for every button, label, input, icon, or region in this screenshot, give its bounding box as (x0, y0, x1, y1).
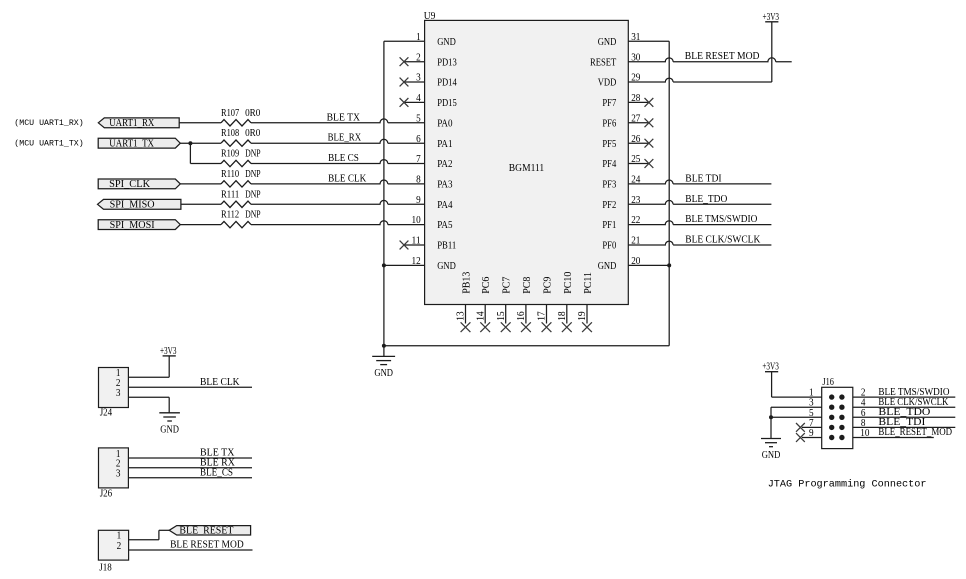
wire: U9 pin 1 GND to left rail (384, 40, 425, 42)
svg-text:PC7: PC7 (502, 277, 513, 294)
wire: U9 pin 3 stub (404, 81, 424, 83)
J16 pin number 3 (809, 398, 814, 409)
U9 right pin 27 name PF6 (602, 118, 616, 129)
net label BLE RESET MOD (J18) (170, 540, 244, 551)
junction at pin 12 / left rail (382, 263, 386, 267)
resistor R110 (221, 169, 261, 187)
connector J26 body (99, 448, 129, 499)
svg-text:PD15: PD15 (437, 98, 457, 109)
port flag SPI_CLK (98, 179, 180, 190)
wire: U9 pin 29 VDD to +3V3 (628, 22, 772, 82)
J26 pin number 3 (116, 469, 121, 480)
U9 pin number 12 (412, 256, 421, 267)
J16 pin number 10 (860, 428, 869, 439)
svg-text:PA5: PA5 (437, 220, 452, 231)
power symbol +3V3 (J24) (160, 346, 177, 357)
port flag SPI_MOSI (98, 220, 180, 231)
wire: SPI_MISO to R111 (181, 203, 221, 205)
svg-text:SPI_MOSI: SPI_MOSI (110, 220, 155, 231)
resistor R108 (221, 128, 260, 146)
svg-text:PF1: PF1 (602, 220, 616, 231)
U9 pin number 21 (631, 236, 640, 247)
U9 pin number 29 (631, 73, 640, 84)
net label BLE_TDO (J16) (878, 407, 930, 418)
wire: U9 pin 15 stub (505, 305, 507, 324)
port flag SPI_MISO (98, 199, 181, 210)
net label BLE TMS/SWDIO (685, 214, 757, 225)
svg-text:R107: R107 (221, 108, 239, 119)
U9 bottom pin 17 name PC9 (rotated) (543, 277, 554, 294)
svg-text:BLE CLK: BLE CLK (328, 173, 367, 184)
wire: J16 pin 4 net BLE CLK/SWCLK (853, 406, 956, 408)
wire: J16 pin 9 stub (802, 437, 822, 439)
wire: J18 pin 1 to BLE_RESET flag (129, 530, 170, 540)
wire: U9 pin 20 GND stub (628, 264, 669, 266)
svg-text:PA3: PA3 (437, 180, 452, 191)
svg-text:3: 3 (116, 388, 121, 399)
net label BLE CLK (J24) (200, 377, 240, 388)
J18 pin number 1 (117, 531, 122, 542)
svg-text:2: 2 (117, 541, 122, 552)
wire: J16 pin 8 net BLE_TDI (853, 426, 956, 428)
wire: U9 pin 28 stub (628, 101, 648, 103)
U9 pin number 9 (416, 195, 421, 206)
wire: U9 pin 13 stub (465, 305, 467, 324)
no-connect X on pin 11 (400, 241, 409, 250)
ground symbol (J16) (761, 439, 781, 462)
no-connect X on pin 26 (645, 139, 654, 148)
no-connect X on pin 3 (400, 78, 409, 87)
no-connect X on pin 27 (645, 118, 654, 127)
J16 pin number 1 (809, 388, 814, 399)
svg-text:PB13: PB13 (462, 272, 473, 294)
wire: J18 pin 2 net BLE RESET MOD (129, 549, 253, 551)
wire: J26 pin 2 net BLE RX (128, 467, 252, 469)
J26 pin number 2 (116, 459, 121, 470)
J26 pin number 1 (116, 449, 121, 460)
svg-text:PA4: PA4 (437, 200, 452, 211)
svg-text:PC11: PC11 (583, 272, 594, 294)
connector J24 body (99, 368, 129, 419)
svg-text:BLE_TDO: BLE_TDO (685, 194, 727, 205)
U9 right pin 29 name VDD (598, 78, 617, 89)
U9 left pin 2 name PD13 (437, 57, 457, 68)
wire: U9 pin 23 net BLE_TDO (628, 200, 771, 204)
J24 pin number 1 (116, 368, 121, 379)
wire: U9 pin 22 net BLE TMS/SWDIO (628, 221, 771, 225)
svg-text:GND: GND (374, 368, 393, 379)
wire: R112 to U9 pin 10 (251, 221, 425, 225)
U9 pin number 28 (631, 93, 640, 104)
svg-text:J26: J26 (100, 488, 113, 499)
svg-text:PC10: PC10 (563, 272, 574, 294)
junction on UART1_TX net (188, 141, 192, 145)
U9 bottom pin 18 name PC10 (rotated) (563, 272, 574, 294)
wire: R107 to U9 pin 5, net BLE TX (251, 119, 425, 123)
wire: U9 pin 30 RESET net BLE RESET MOD (628, 58, 791, 62)
U9 left pin 12 name GND (437, 261, 456, 272)
port flag UART1_TX (98, 138, 180, 149)
wire: R111 to U9 pin 9 (251, 200, 425, 204)
U9 left pin 3 name PD14 (437, 78, 457, 89)
no-connect X on pin 13 (461, 322, 471, 332)
U9 left pin 7 name PA2 (437, 159, 452, 170)
U9 bottom pin number 19 (rotated) (577, 311, 588, 321)
svg-text:(MCU UART1_RX): (MCU UART1_RX) (14, 118, 83, 128)
svg-text:PB11: PB11 (437, 241, 456, 252)
svg-text:J18: J18 (99, 563, 112, 574)
svg-text:PA2: PA2 (437, 159, 452, 170)
svg-text:BLE CLK: BLE CLK (200, 377, 240, 388)
U9 pin number 24 (631, 175, 641, 186)
wire: U9 pin 12 GND stub (384, 264, 425, 266)
U9 pin number 26 (631, 134, 640, 145)
J16 pin number 8 (861, 418, 866, 429)
J16 pin circles (829, 394, 845, 440)
wire: U9 pin 25 stub (628, 163, 648, 165)
svg-text:PF4: PF4 (602, 159, 616, 170)
U9 right pin 21 name PF0 (602, 241, 616, 252)
ground symbol below U9 (372, 346, 395, 379)
wire: right GND rail vertical (668, 41, 670, 346)
U9 bottom pin number 17 (rotated) (537, 311, 548, 321)
net label BLE CLK/SWCLK (J16) (878, 397, 949, 408)
svg-text:PC6: PC6 (481, 277, 492, 294)
wire: bottom GND bus (384, 345, 669, 347)
net label BLE TX (327, 112, 361, 123)
wire: U9 pin 21 net BLE CLK/SWCLK (628, 241, 771, 245)
svg-text:DNP: DNP (245, 210, 261, 221)
J16 pin number 5 (809, 408, 814, 419)
svg-text:0R0: 0R0 (245, 108, 260, 119)
no-connect X on pin 28 (645, 98, 654, 107)
svg-text:PF2: PF2 (602, 200, 616, 211)
svg-text:VDD: VDD (598, 78, 617, 89)
no-connect X on pin 15 (501, 322, 511, 332)
power symbol +3V3 (top right) (763, 12, 780, 23)
U9 pin number 27 (631, 113, 640, 124)
wire: U9 pin 18 stub (566, 305, 568, 324)
net label BLE CS (328, 153, 359, 164)
refdes U9 (424, 11, 436, 22)
wire: J26 pin 1 net BLE TX (128, 457, 252, 459)
value BGM111 (509, 163, 544, 174)
U9 bottom pin number 16 (rotated) (516, 311, 527, 321)
U9 left pin 11 name PB11 (437, 241, 456, 252)
U9 pin number 23 (631, 195, 640, 206)
U9 right pin 22 name PF1 (602, 220, 616, 231)
U9 pin number 3 (416, 73, 421, 84)
J16 pin number 7 (809, 418, 814, 429)
port flag UART1_RX (98, 118, 179, 129)
net label BLE RX (J26) (200, 457, 236, 468)
U9 pin number 11 (412, 236, 421, 247)
svg-text:0R0: 0R0 (245, 128, 260, 139)
wire: J16 pin 2 net BLE TMS/SWDIO (853, 396, 956, 398)
U9 pin number 1 (416, 32, 421, 43)
U9 pin number 6 (416, 134, 421, 145)
net label BLE_RX (328, 133, 362, 144)
net label BLE TMS/SWDIO (J16) (878, 387, 949, 398)
svg-text:PF3: PF3 (602, 180, 616, 191)
U9 left pin 8 name PA3 (437, 180, 452, 191)
no-connect X on pin 4 (400, 98, 409, 107)
J16 pin number 6 (861, 408, 866, 419)
U9 pin number 7 (416, 154, 421, 165)
svg-text:DNP: DNP (245, 149, 261, 160)
net label BLE RESET MOD (685, 51, 760, 62)
U9 right pin 23 name PF2 (602, 200, 616, 211)
resistor R112 (221, 210, 261, 228)
no-connect X on pin 2 (400, 57, 409, 66)
wire: J24 pin 3 to ground (128, 397, 169, 413)
svg-text:J24: J24 (100, 408, 113, 419)
wire: J16 pin 3 to ground rail (771, 407, 822, 438)
no-connect X on J16 pin 7 (796, 423, 805, 432)
svg-text:GND: GND (598, 261, 617, 272)
svg-text:BLE TX: BLE TX (327, 112, 361, 123)
no-connect X on pin 18 (562, 322, 572, 332)
svg-text:GND: GND (160, 424, 179, 435)
U9 pin number 2 (416, 52, 421, 63)
no-connect X on pin 14 (480, 322, 490, 332)
U9 bottom pin 15 name PC7 (rotated) (502, 277, 513, 294)
net label BLE TDI (685, 173, 721, 184)
svg-text:SPI_CLK: SPI_CLK (109, 179, 151, 190)
connector J16 body (822, 377, 853, 449)
U9 pin number 5 (416, 113, 421, 124)
U9 left pin 1 name GND (437, 37, 456, 48)
annotation (MCU UART1_TX) (14, 139, 83, 149)
caption JTAG Programming Connector (768, 478, 927, 490)
wire: J16 pin 7 stub (802, 426, 822, 428)
wire: U9 pin 19 stub (586, 305, 588, 324)
wire: R108 to U9 pin 6, net BLE_RX (251, 139, 425, 143)
wire: J26 pin 3 net BLE_CS (128, 477, 252, 479)
svg-text:BLE_RESET: BLE_RESET (179, 526, 233, 537)
U9 pin number 22 (631, 215, 640, 226)
wire: SPI_CLK to R110 (180, 183, 221, 185)
U9 bottom pin 13 name PB13 (rotated) (462, 272, 473, 294)
U9 right pin 30 name RESET (590, 57, 616, 68)
wire: R110 to U9 pin 8, net BLE CLK (251, 180, 425, 184)
no-connect X on pin 19 (582, 322, 592, 332)
wire: J24 pin 2 net BLE CLK (128, 386, 252, 388)
resistor R107 (221, 108, 260, 126)
wire: U9 pin 11 stub (404, 244, 424, 246)
resistor R111 (221, 189, 261, 207)
wire: U9 pin 26 stub (628, 142, 648, 144)
U9 pin number 10 (412, 215, 421, 226)
svg-text:BLE RESET MOD: BLE RESET MOD (685, 51, 760, 62)
svg-text:R108: R108 (221, 128, 239, 139)
svg-text:SPI_MISO: SPI_MISO (110, 200, 155, 211)
wire: U9 pin 2 stub (404, 61, 424, 63)
wire: J24 pin 1 to +3V3 (128, 356, 169, 377)
wire: UART1_RX to R107 (179, 122, 221, 124)
J16 pin number 2 (861, 388, 866, 399)
wire: U9 pin 16 stub (525, 305, 527, 324)
wire: SPI_MOSI to R112 (180, 224, 221, 226)
U9 pin number 31 (631, 32, 640, 43)
svg-text:BLE TDI: BLE TDI (685, 173, 721, 184)
svg-text:3: 3 (116, 469, 121, 480)
svg-text:BLE_CS: BLE_CS (200, 467, 233, 478)
resistor R109 (221, 149, 261, 167)
U9 pin number 30 (631, 52, 640, 63)
no-connect X on pin 25 (645, 159, 654, 168)
power symbol +3V3 (J16) (762, 361, 779, 372)
svg-text:+3V3: +3V3 (762, 361, 779, 372)
svg-text:PD14: PD14 (437, 78, 457, 89)
svg-text:BLE CS: BLE CS (328, 153, 359, 164)
annotation (MCU UART1_RX) (14, 118, 83, 128)
svg-text:PC9: PC9 (543, 277, 554, 294)
junction at bottom GND bus left (382, 344, 386, 348)
wire: U9 pin 24 net BLE TDI (628, 180, 771, 184)
wire: U9 pin 17 stub (546, 305, 548, 324)
J24 pin number 2 (116, 378, 121, 389)
svg-text:PA0: PA0 (437, 118, 452, 129)
svg-text:BLE_RESET_MOD: BLE_RESET_MOD (878, 427, 952, 438)
svg-text:PD13: PD13 (437, 57, 457, 68)
J24 pin number 3 (116, 388, 121, 399)
ground symbol (J24) (159, 413, 180, 436)
U9 bottom pin number 18 (rotated) (557, 311, 568, 321)
connector J18 body (98, 530, 128, 573)
svg-text:BLE CLK/SWCLK: BLE CLK/SWCLK (685, 235, 761, 246)
wire: branch down to R109 row (190, 143, 221, 163)
U9 bottom pin number 13 (rotated) (456, 311, 467, 321)
U9 bottom pin number 15 (rotated) (496, 311, 507, 321)
junction at pin 20 / right rail (667, 263, 671, 267)
svg-text:+3V3: +3V3 (160, 346, 177, 357)
wire: +3V3 to J16 pin 1 (772, 372, 822, 397)
wire: U9 pin 31 GND to right rail (628, 40, 669, 42)
wire: left GND rail vertical (383, 41, 385, 346)
wire: UART1_TX tip to R108 (180, 142, 221, 144)
port flag BLE_RESET (169, 526, 250, 537)
U9 bottom pin number 14 (rotated) (475, 311, 486, 321)
U9 right pin 24 name PF3 (602, 180, 616, 191)
wire: J16 pin 6 net BLE_TDO (853, 416, 956, 418)
svg-text:U9: U9 (424, 11, 436, 22)
net label BLE_TDO (685, 194, 727, 205)
U9 pin number 4 (416, 93, 421, 104)
U9 left pin 10 name PA5 (437, 220, 452, 231)
net label BLE TX (J26) (200, 448, 235, 459)
net label BLE CLK/SWCLK (685, 235, 761, 246)
svg-text:DNP: DNP (245, 189, 261, 200)
svg-text:GND: GND (762, 450, 781, 461)
net label BLE_RESET_MOD (J16) (878, 427, 952, 438)
svg-text:RESET: RESET (590, 57, 616, 68)
U9 pin number 8 (416, 175, 421, 186)
J16 pin number 9 (809, 428, 814, 439)
no-connect X on pin 17 (542, 322, 552, 332)
junction at J16 ground rail (769, 415, 773, 419)
wire: U9 pin 14 stub (484, 305, 486, 324)
U9 pin number 20 (631, 256, 640, 267)
svg-text:PA1: PA1 (437, 139, 452, 150)
svg-text:R109: R109 (221, 149, 239, 160)
svg-text:PF5: PF5 (602, 139, 616, 150)
no-connect X on J16 pin 9 (796, 433, 805, 442)
svg-text:GND: GND (437, 37, 456, 48)
net label BLE_CS (J26) (200, 467, 233, 478)
U9 right pin 31 name GND (598, 37, 617, 48)
J18 pin number 2 (117, 541, 122, 552)
svg-text:PF0: PF0 (602, 241, 616, 252)
U9 left pin 4 name PD15 (437, 98, 457, 109)
op-amp-free main module: IC U9 BGM111 body (425, 20, 629, 304)
U9 left pin 9 name PA4 (437, 200, 452, 211)
svg-text:R110: R110 (221, 169, 239, 180)
wire: J16 pin 5 to ground rail (771, 416, 822, 418)
svg-text:PF7: PF7 (602, 98, 616, 109)
svg-text:(MCU UART1_TX): (MCU UART1_TX) (14, 139, 83, 149)
svg-text:J16: J16 (822, 377, 834, 388)
net label BLE_TDI (J16) (878, 417, 925, 428)
wire: U9 pin 27 stub (628, 122, 648, 124)
svg-text:PF6: PF6 (602, 118, 616, 129)
svg-text:DNP: DNP (245, 169, 261, 180)
U9 bottom pin 14 name PC6 (rotated) (481, 277, 492, 294)
U9 right pin 25 name PF4 (602, 159, 616, 170)
wire: U9 pin 4 stub (404, 101, 424, 103)
svg-text:R111: R111 (221, 189, 239, 200)
svg-text:BLE_RX: BLE_RX (328, 133, 362, 144)
svg-text:UART1_TX: UART1_TX (109, 138, 154, 149)
svg-text:BLE RESET MOD: BLE RESET MOD (170, 540, 244, 551)
net label BLE CLK (328, 173, 367, 184)
svg-text:BGM111: BGM111 (509, 163, 544, 174)
U9 right pin 28 name PF7 (602, 98, 616, 109)
svg-text:PC8: PC8 (522, 277, 533, 294)
svg-text:JTAG Programming Connector: JTAG Programming Connector (768, 478, 927, 490)
svg-text:GND: GND (437, 261, 456, 272)
U9 left pin 6 name PA1 (437, 139, 452, 150)
svg-text:R112: R112 (221, 210, 239, 221)
no-connect X on pin 16 (521, 322, 531, 332)
U9 bottom pin 16 name PC8 (rotated) (522, 277, 533, 294)
J16 pin number 4 (861, 398, 866, 409)
U9 right pin 26 name PF5 (602, 139, 616, 150)
svg-text:UART1_RX: UART1_RX (109, 118, 155, 129)
U9 left pin 5 name PA0 (437, 118, 452, 129)
U9 pin number 25 (631, 154, 640, 165)
svg-text:BLE TMS/SWDIO: BLE TMS/SWDIO (685, 214, 757, 225)
U9 bottom pin 19 name PC11 (rotated) (583, 272, 594, 294)
wire: R109 to U9 pin 7, net BLE CS (251, 160, 425, 164)
wire: J16 pin 10 net BLE_RESET_MOD (853, 437, 934, 439)
U9 right pin 20 name GND (598, 261, 617, 272)
svg-text:GND: GND (598, 37, 617, 48)
